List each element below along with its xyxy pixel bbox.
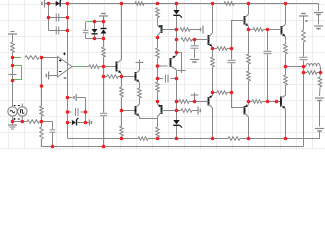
resistor R21 [212,49,214,58]
wire input node segment [12,58,14,66]
resistor R26 [248,64,250,71]
wire Q8 base row [158,65,168,67]
wire R18 to Q3 base [192,39,195,41]
resistor R14 [157,38,159,49]
wire to Q5 base [189,101,205,103]
battery V11 [315,128,324,130]
diode D2 (down) [94,22,96,29]
capacitor C3 [50,129,56,131]
transistor Q7 [280,97,282,107]
battery V9 stub [299,15,308,17]
transistor Q2 (PNP mirrored) [157,24,159,26]
transistor Q11 [135,106,137,115]
wire x176 mid [176,79,178,111]
capacitor C5 (mid column) [103,77,105,113]
diode D3 (up) [103,22,105,29]
transistor Q3 [208,35,210,45]
cross terminal (source plate) [12,66,14,78]
wire Q4 emitter [248,27,250,30]
wire node to C3 [42,121,53,123]
battery V4 (inverting input) [48,72,50,80]
transistor Q8 (PNP up) [176,53,178,56]
wire x176 bottom upper [176,111,178,121]
resistor R25 [248,30,250,55]
resistor R12 [139,83,141,89]
wire x176 top upper [176,4,178,11]
wire Q1 emitter [121,74,123,77]
battery V12 (top right) [314,12,323,14]
wire Q11 base row [122,110,136,112]
capacitor C2 [55,27,57,35]
ground (below source) [12,122,14,125]
resistor R35 (rail inline) [228,137,240,141]
capacitor C7 branch [194,40,196,46]
resistor R6 (shunt) [41,122,43,128]
cross terminal above Q10 [139,60,141,71]
wire cluster bottom row [86,38,104,40]
resistor R22 (emitter row) [213,48,218,50]
rail V- upper bottom rail [68,138,139,140]
wire Q9 base [162,110,177,112]
green output segment [76,66,84,68]
resistor R2 (top rail right) [224,2,234,6]
wire op-amp output [72,66,76,68]
resistor R33 [40,106,44,116]
source V3 (pulse) [18,107,27,116]
background grid [0,0,325,150]
resistor R11 [121,111,123,127]
capacitor C8 [231,49,233,60]
battery V10 [315,97,324,99]
diode D6 (zener, down) [173,10,179,14]
capacitor C6 [158,78,164,80]
resistor R29 [285,67,287,76]
wire Q6 base [268,29,282,31]
resistor R27 (driver row) [249,101,253,103]
battery V13 [314,25,323,27]
resistor R31 (parallel) [304,72,308,74]
resistor R3 (input top) [11,42,15,53]
resistor R20 [181,109,192,113]
wire x176 bottom lower [176,126,178,139]
transistor Q12 (PNP up) [248,102,250,105]
wire Q1 collector [121,4,123,60]
wire zobel column upper [85,98,87,113]
resistor R28 [284,44,288,54]
wire to source [12,77,14,107]
wire Q12 base [241,107,245,109]
wire output to R7 [84,66,89,68]
wire Q10 base row [122,76,136,78]
wire x158 segment [157,66,159,79]
resistor R16 [157,119,159,128]
wire Q5 base [205,101,209,103]
transistor Q5 (NPN up) [212,93,214,96]
battery V8 [197,107,199,115]
rail ground return lower [41,146,304,148]
junction dots [47,2,51,6]
battery V6 [202,26,204,34]
battery V7 [190,59,199,61]
resistor R7 [89,65,99,69]
resistor R30 [303,16,305,30]
wire R7 to node [99,66,104,68]
wire Q4 base feed [232,21,241,49]
polarity dash [306,20,308,22]
wire Q2 base [162,29,177,31]
wire Q8 bypass [177,53,182,74]
battery V14 stub [89,120,91,126]
wire feedback column lower [41,116,43,122]
wire top supply rail [45,3,319,5]
transistor Q6 [285,4,287,25]
transistor Q1 [116,62,118,72]
diode D4 [68,122,72,124]
wire Q11 emitter to node [140,117,158,119]
resistor R17 [180,28,190,32]
polarity marks [14,105,16,107]
wire main vertical V+ column [67,31,69,139]
wire C1 C2 loop [48,4,50,31]
resistor R32 [319,73,322,77]
wire output row [286,66,304,68]
wire zobel column [85,112,87,123]
capacitor C9 [267,30,269,51]
inductor L1 [304,66,307,68]
capacitor C11 row [68,111,72,113]
wire driver node [268,101,282,103]
green Q6 emitter segment [285,37,287,40]
wire x303 down [303,67,305,147]
capacitor C10 [300,56,308,58]
wire node to Q1 base [104,66,117,68]
diode D1 on top rail [49,3,56,5]
resistor R23 [213,92,218,94]
wire x176 top lower [176,16,178,53]
resistor R10 [120,87,124,97]
wire cluster top row [95,21,104,23]
diode D5 (zener, down) [173,120,179,124]
transistor Q4 [244,16,246,25]
resistor R4 (to op-amp +in) [25,56,39,60]
green net segment [87,21,95,23]
capacitor C1 [55,14,57,22]
battery V1 (top left) [44,0,46,8]
cross terminal above driver node [194,93,196,102]
wire Q3 emitter [212,47,214,49]
transistor Q9 (mirrored) [157,102,159,105]
resistor R5 (series input) [27,120,40,124]
resistor R18 [181,38,192,42]
resistor R1 (top rail left) [135,2,144,6]
wire x231 lower [232,93,241,108]
op-amp U1 [58,57,73,78]
wire input row [13,121,28,123]
capacitor C4 branch [85,22,87,30]
green feedback stub [13,57,21,59]
battery V5 (bias stub) [99,15,108,17]
resistor R19 [179,100,189,104]
ground (top of input divider) [11,31,15,33]
wire R4 to op-amp [42,57,58,59]
source V2 (sine) [8,107,17,116]
wire Q4 collector [248,4,250,15]
source stems [21,104,23,107]
battery V15 (feedback offset) [68,97,73,99]
green loop wire [13,66,22,80]
resistor R9 [107,75,118,79]
cross terminal (Q8 bypass) [178,70,186,72]
transistor Q10 [135,72,137,81]
wire feedback column upper [41,58,43,107]
resistor R34 (rail inline) [138,137,148,141]
wire Q1 emitter node [121,77,123,88]
resistor R8 [103,39,105,48]
wire Q3 collector [212,4,214,34]
wire bias chain [103,67,105,77]
resistor R13 (from top rail) [156,8,160,18]
resistor R24 (row) [249,29,254,31]
resistor R15 [157,79,159,83]
